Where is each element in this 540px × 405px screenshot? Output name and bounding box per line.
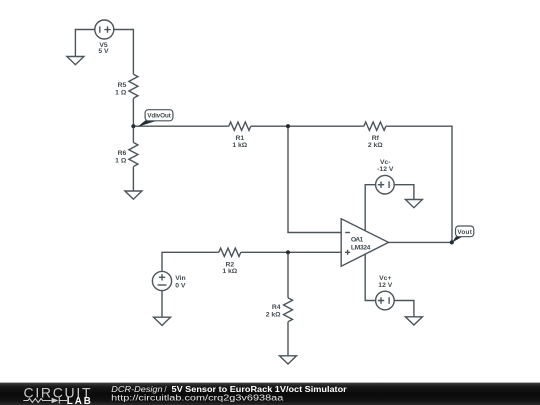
svg-text:R6: R6	[118, 150, 127, 157]
svg-text:Vin: Vin	[175, 275, 185, 282]
svg-text:1 Ω: 1 Ω	[115, 158, 127, 165]
svg-text:Vc+: Vc+	[379, 275, 391, 282]
svg-text:LM324: LM324	[351, 244, 371, 251]
svg-text:Vc-: Vc-	[380, 159, 391, 166]
svg-text:0 V: 0 V	[175, 283, 186, 290]
svg-text:R5: R5	[118, 82, 127, 89]
svg-text:LAB: LAB	[67, 396, 91, 405]
svg-text:2 kΩ: 2 kΩ	[266, 311, 281, 318]
svg-text:2 kΩ: 2 kΩ	[368, 142, 383, 149]
svg-text:1 Ω: 1 Ω	[115, 90, 127, 97]
svg-text:5V Sensor to EuroRack 1V/oct S: 5V Sensor to EuroRack 1V/oct Simulator	[172, 385, 347, 394]
svg-text:DCR-Design: DCR-Design	[111, 385, 163, 394]
svg-text:5 V: 5 V	[98, 48, 109, 55]
svg-text:12 V: 12 V	[378, 282, 392, 289]
svg-text:http://circuitlab.com/crq2g3v6: http://circuitlab.com/crq2g3v6938aa	[111, 394, 284, 403]
svg-text:1 kΩ: 1 kΩ	[232, 142, 247, 149]
svg-text:VdivOut: VdivOut	[147, 113, 171, 120]
svg-text:1 kΩ: 1 kΩ	[222, 268, 237, 275]
svg-text:R4: R4	[272, 304, 281, 311]
svg-text:-12 V: -12 V	[377, 166, 394, 173]
svg-text:OA1: OA1	[351, 236, 363, 243]
svg-text:Vout: Vout	[457, 229, 472, 236]
